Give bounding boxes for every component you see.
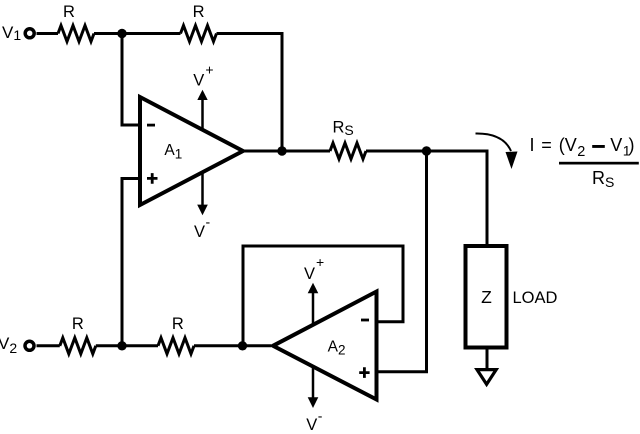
node junction V2/A1+ bbox=[117, 341, 126, 350]
wire A1 non-inverting input stub bbox=[122, 179, 140, 346]
V+ arrow A2 bbox=[308, 283, 319, 325]
wire R2 to A1 output node bbox=[217, 34, 283, 152]
A1 minus sign bbox=[147, 124, 155, 127]
wire A1 output rail bbox=[244, 150, 330, 153]
node A1 output bbox=[277, 146, 286, 155]
A2 minus sign bbox=[361, 319, 369, 322]
svg-text:S: S bbox=[605, 174, 614, 190]
op-amp A2 bbox=[273, 292, 377, 400]
svg-text:I: I bbox=[530, 135, 535, 155]
svg-text:V: V bbox=[610, 135, 622, 155]
V- arrow A1 bbox=[197, 171, 208, 215]
node RS output bbox=[422, 146, 431, 155]
wire R1 to R2 bbox=[94, 32, 181, 35]
A1 plus sign bbox=[147, 173, 158, 184]
resistor R3 bbox=[60, 338, 96, 354]
svg-text:=: = bbox=[541, 135, 552, 155]
svg-text:Z: Z bbox=[481, 287, 492, 307]
wire load to ground bbox=[486, 350, 489, 370]
V- arrow A2 bbox=[308, 366, 319, 408]
svg-text:R: R bbox=[193, 3, 205, 21]
svg-text:): ) bbox=[629, 135, 635, 155]
wire R3 to R4 bbox=[96, 344, 158, 347]
V+ arrow A1 bbox=[197, 90, 207, 131]
wire V2 lead bbox=[37, 344, 60, 347]
wire R4 to A2 output bbox=[194, 344, 271, 347]
wire RS to load corner bbox=[366, 150, 489, 153]
terminal V1 bbox=[25, 29, 34, 38]
svg-text:R: R bbox=[172, 315, 184, 333]
load Z rectangle bbox=[466, 246, 507, 348]
resistor RS bbox=[330, 143, 366, 159]
wire V1 lead bbox=[37, 32, 59, 35]
current direction curved arrow bbox=[476, 133, 518, 169]
svg-text:V1: V1 bbox=[2, 23, 21, 43]
svg-text:2: 2 bbox=[577, 144, 585, 160]
formula I = (V2 - V1)/RS bbox=[530, 135, 639, 190]
svg-text:R: R bbox=[63, 3, 75, 21]
svg-text:(V: (V bbox=[559, 135, 577, 155]
svg-text:R: R bbox=[72, 315, 84, 333]
resistor R1 bbox=[58, 26, 94, 42]
wire A1 inverting input stub bbox=[122, 34, 140, 126]
wire A2 feedback loop bbox=[243, 246, 403, 346]
A2 plus sign bbox=[359, 367, 369, 378]
wire down to load bbox=[486, 150, 489, 247]
resistor R4 bbox=[158, 338, 194, 354]
svg-text:R: R bbox=[592, 168, 605, 188]
svg-text:RS: RS bbox=[333, 119, 354, 139]
svg-text:LOAD: LOAD bbox=[513, 289, 558, 307]
ground bbox=[477, 370, 496, 385]
node junction top (V1/R2/A1-) bbox=[117, 29, 126, 38]
wire node to A2 non-inverting input bbox=[377, 151, 427, 372]
op-amp A1 bbox=[140, 97, 243, 205]
terminal V2 bbox=[25, 341, 34, 350]
resistor R2 feedback bbox=[181, 26, 217, 42]
node A2 output junction bbox=[238, 341, 247, 350]
